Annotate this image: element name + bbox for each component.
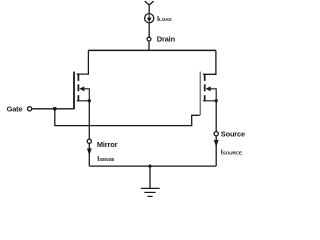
junction: Q1 body-source tie — [88, 99, 91, 102]
wire: bottom ground bus — [89, 165, 216, 167]
svg-text:Source: Source — [221, 129, 245, 138]
wire: Mirror node to ground bus — [88, 143, 90, 166]
off-page connector (load terminal) — [145, 1, 154, 13]
node Gate — [28, 107, 32, 111]
wire: gate junction to Q2 gate — [55, 109, 200, 126]
current arrow I_SENSE — [87, 148, 92, 155]
junction: gate wire split — [53, 107, 57, 111]
wire: Q2 drain to bus — [203, 50, 216, 74]
node Mirror — [87, 139, 91, 143]
wire: Gate node to Q1 gate — [32, 108, 74, 110]
wire: Q2 source to Source node — [215, 101, 217, 132]
node Source — [214, 132, 218, 136]
svg-text:Mirror: Mirror — [97, 140, 118, 149]
svg-text:Drain: Drain — [157, 34, 176, 43]
ground — [141, 188, 160, 196]
junction: Q2 body-source tie — [215, 99, 218, 102]
wire: top drain bus — [88, 49, 215, 51]
wire: ground stem — [149, 166, 151, 188]
wire: Drain node to top bus — [148, 41, 150, 50]
junction: ground tap — [148, 165, 151, 168]
transistor Q1 — [74, 72, 89, 110]
svg-text:Gate: Gate — [7, 104, 23, 113]
wire: Q1 source to Mirror node — [88, 101, 90, 139]
node Drain — [147, 37, 151, 41]
current source I_LOAD — [145, 14, 154, 23]
wire: Source node to ground bus — [215, 136, 217, 166]
current arrow I_SOURCE — [214, 140, 219, 147]
transistor Q2 — [200, 72, 216, 116]
wire: Q1 drain to bus — [77, 50, 89, 74]
wire: current source to Drain node — [148, 23, 150, 37]
